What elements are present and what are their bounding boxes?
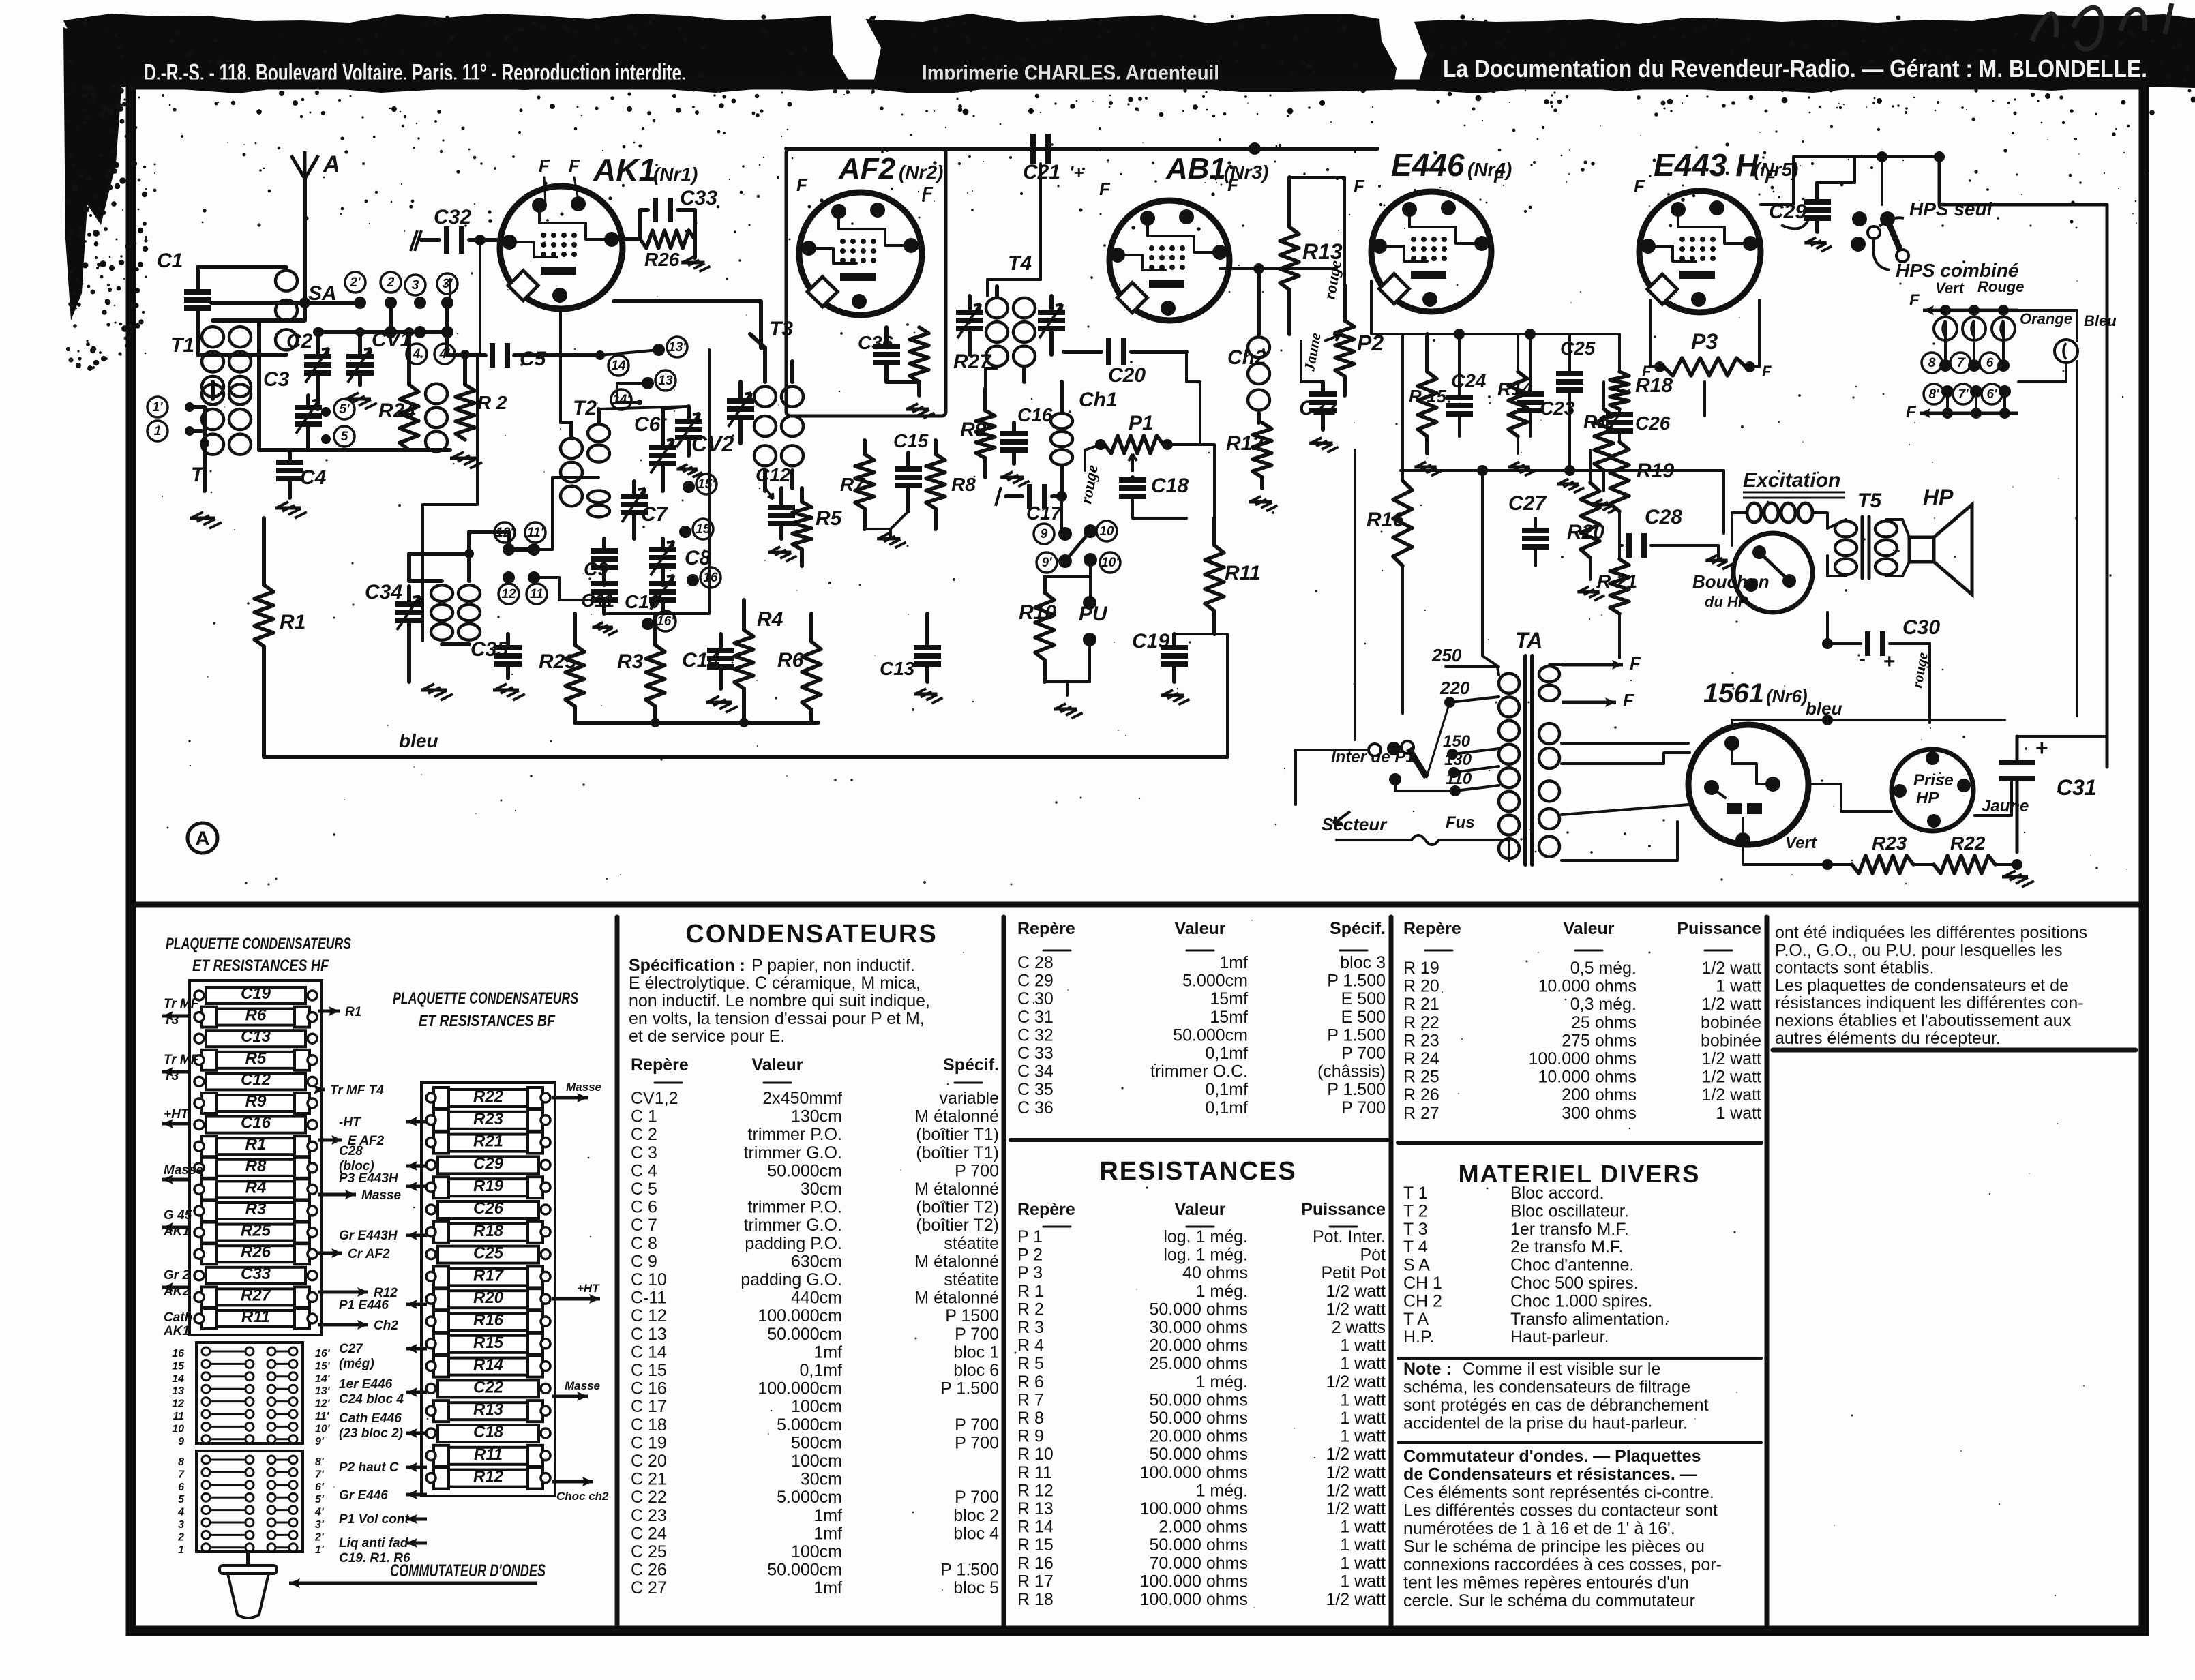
wire bottom rail mid [575,718,818,727]
svg-text:16': 16' [657,614,675,629]
label AB1 [1165,152,1268,185]
ground C12 [768,547,796,562]
svg-text:15mf: 15mf [1210,1008,1248,1027]
svg-text:R 10: R 10 [1017,1445,1054,1464]
capacitor CV1 [346,327,411,385]
svg-text:C1: C1 [157,250,183,272]
svg-text:50.000 ohms: 50.000 ohms [1149,1409,1248,1428]
svg-text:10': 10' [315,1423,331,1435]
svg-text:7: 7 [178,1469,185,1480]
svg-text:C 31: C 31 [1017,1008,1054,1027]
wire E443H top box [1761,151,1945,205]
wire bleu bottom [264,730,1227,757]
choke Ch1 [1051,382,1118,496]
label E443H [1654,147,1798,183]
transformer T1 [170,303,305,455]
svg-text:13: 13 [172,1385,184,1397]
node 2 [380,272,401,309]
wire C20 to AB1 [1186,352,1200,445]
svg-text:Valeur: Valeur [1174,919,1225,938]
ground R17 [1591,499,1618,513]
capacitor T4 left [956,296,983,355]
svg-text:C33: C33 [241,1265,271,1283]
resistor R8 [926,440,976,529]
svg-text:Sur le schéma de principe: Sur le schéma de principe les pièces ou [1403,1537,1705,1557]
capacitor CV2 [675,406,734,456]
resistor R20 [1567,450,1604,580]
svg-text:bloc 1: bloc 1 [953,1342,999,1362]
svg-text:bloc 5: bloc 5 [953,1578,999,1597]
svg-text:'+: '+ [1069,162,1084,183]
column rule 3 [1389,917,1394,1625]
node 6 [1980,352,2010,373]
ground C16 [1000,472,1029,487]
label Bleu lamp [2084,312,2117,329]
svg-text:T3: T3 [769,318,793,340]
svg-text:14': 14' [612,393,631,407]
resistor R6 [777,614,821,723]
svg-text:2.000 ohms: 2.000 ohms [1159,1518,1248,1537]
svg-text:F: F [1634,176,1645,196]
svg-text:R5: R5 [816,507,843,530]
wire C31 top [2017,736,2107,767]
svg-text:500cm: 500cm [791,1433,842,1452]
ground R7 [865,511,908,548]
potentiometer P1 [1085,412,1200,472]
svg-text:6': 6' [1986,387,1998,402]
capacitor C8 [649,539,711,585]
svg-text:C5: C5 [520,348,547,370]
capacitor C17 [996,484,1067,524]
node bus 2 [211,301,360,305]
svg-text:C 34: C 34 [1017,1062,1054,1081]
svg-text:5': 5' [339,402,350,417]
svg-text:C 25: C 25 [631,1542,667,1561]
label 250 [1431,645,1499,675]
svg-text:H.P.: H.P. [1403,1327,1434,1347]
svg-text:Repère: Repère [631,1055,689,1075]
tube AF2 [799,192,922,315]
resistor R15 [1409,334,1446,453]
node 9 [1034,524,1072,544]
svg-text:R11: R11 [241,1308,270,1326]
ground C31 [2002,871,2034,887]
svg-text:T1: T1 [170,334,194,357]
label F F AK1 [539,155,580,205]
svg-text:C6: C6 [634,413,661,436]
svg-text:1er transfo M.F.: 1er transfo M.F. [1510,1220,1629,1239]
svg-text:100cm: 100cm [791,1397,842,1416]
svg-text:C12: C12 [756,464,791,485]
label 1561 [1703,678,1808,708]
node 12prime [494,522,515,556]
wire secteur [1294,750,1297,805]
ground R12 [1249,496,1277,511]
svg-text:CV1,2: CV1,2 [631,1089,678,1108]
svg-text:C 18: C 18 [631,1415,667,1435]
node 3 [405,275,426,309]
svg-text:C 6: C 6 [631,1198,657,1217]
svg-text:50.000cm: 50.000cm [767,1561,842,1580]
svg-text:C 15: C 15 [631,1361,667,1380]
capacitor T4 right [1038,296,1065,355]
svg-text:(boîtier T1): (boîtier T1) [916,1125,999,1144]
label Vert wire [1743,834,1833,870]
svg-text:100.000 ohms: 100.000 ohms [1140,1499,1248,1518]
resistor R5 [792,488,843,566]
svg-text:C 9: C 9 [631,1252,657,1271]
svg-text:cercle. Sur le schéma du: cercle. Sur le schéma du commutateur [1403,1591,1695,1610]
svg-text:C29: C29 [473,1154,504,1173]
svg-text:Gr E443H: Gr E443H [339,1229,398,1243]
label F F E446 [1354,166,1505,196]
wire C32 drop [479,240,481,355]
wire bus blue to R11 [1214,634,1227,757]
svg-text:(Nr2): (Nr2) [899,162,943,183]
svg-text:P 700: P 700 [1341,1044,1386,1063]
svg-text:sont protégés en cas de dé: sont protégés en cas de débranchement [1403,1396,1709,1415]
socket Prise HP [1892,749,1973,831]
svg-text:R 26: R 26 [1403,1085,1439,1105]
svg-text:R 7: R 7 [1017,1390,1044,1409]
svg-text:A: A [323,151,340,177]
svg-text:Repère: Repère [1403,919,1461,938]
svg-text:1mf: 1mf [813,1342,842,1362]
svg-text:50.000cm: 50.000cm [1173,1025,1248,1045]
svg-text:1561: 1561 [1703,678,1764,708]
svg-text:P 2: P 2 [1017,1246,1043,1265]
svg-text:1/2 watt: 1/2 watt [1326,1445,1386,1464]
svg-text:1mf: 1mf [1219,953,1248,972]
ground R20 [1577,586,1604,600]
svg-text:Petit Pot: Petit Pot [1322,1263,1386,1282]
svg-text:2: 2 [177,1531,184,1543]
wire P2 net [1289,177,1345,382]
resistor R24 [378,327,447,451]
antenna A [291,151,340,225]
resistor R3 [617,614,665,723]
svg-text:1/2 watt: 1/2 watt [1326,1372,1386,1392]
ground C11 [592,622,618,635]
svg-text:C30: C30 [1902,616,1940,639]
svg-text:CONDENSATEURS: CONDENSATEURS [685,920,937,948]
tube E446 [1371,192,1491,312]
capacitor T3 tune [727,382,754,443]
svg-text:9': 9' [315,1436,325,1447]
svg-text:1 watt: 1 watt [1340,1390,1386,1409]
svg-text:Bouchon: Bouchon [1692,571,1770,592]
svg-text:1/2 watt: 1/2 watt [1701,1068,1761,1087]
capacitor C12 [756,464,795,539]
svg-text:1 watt: 1 watt [1340,1572,1386,1591]
label HPS seul [1879,198,1993,226]
svg-text:8: 8 [178,1456,184,1468]
svg-text:C 14: C 14 [631,1342,667,1362]
paragraph specification [629,956,930,1046]
svg-text:9: 9 [178,1436,184,1447]
svg-text:C26: C26 [473,1199,504,1218]
svg-text:50.000 ohms: 50.000 ohms [1149,1445,1248,1464]
svg-text:-HT: -HT [339,1115,361,1130]
svg-text:E 500: E 500 [1341,989,1386,1008]
svg-text:1/2 watt: 1/2 watt [1326,1282,1386,1301]
svg-text:1 watt: 1 watt [1716,977,1761,996]
svg-text:P1 E446: P1 E446 [339,1298,389,1312]
node 5 [321,426,355,447]
divider schematic/tables [136,902,2138,908]
svg-text:autres éléments du récepteu: autres éléments du récepteur. [1775,1029,2001,1048]
svg-text:C 12: C 12 [631,1306,667,1325]
svg-text:F: F [1354,176,1365,196]
svg-text:C8: C8 [685,547,711,569]
svg-text:2x450mmf: 2x450mmf [762,1089,842,1108]
svg-text:C24: C24 [1451,370,1487,391]
svg-text:R 4: R 4 [1017,1336,1044,1355]
choke SA [198,267,337,355]
svg-text:Liq anti fad: Liq anti fad [339,1536,408,1550]
svg-text:16: 16 [703,571,718,585]
svg-text:9': 9' [1041,556,1053,570]
svg-text:C27: C27 [339,1342,363,1356]
svg-text:R 15: R 15 [1017,1535,1054,1555]
wire 2-2p link [389,303,393,332]
svg-text:Valeur: Valeur [751,1055,803,1075]
svg-text:Spécification :: Spécification : [629,956,745,975]
svg-text:6': 6' [315,1482,325,1493]
capacitor C3 [263,368,322,450]
svg-text:S A: S A [1403,1256,1430,1275]
capacitor C6 [634,409,676,491]
svg-text:C3: C3 [263,368,290,391]
svg-text:(boîtier T2): (boîtier T2) [916,1198,999,1217]
wire 1561 left leads [1562,743,1690,860]
svg-text:Fus: Fus [1446,813,1475,832]
column rule 4 [1765,917,1770,1625]
label 150 [1443,732,1499,760]
capacitor C4 [276,450,327,498]
speaker HP [1902,485,1972,595]
svg-text:100.000cm: 100.000cm [758,1306,842,1325]
svg-text:C19: C19 [241,985,271,1003]
label Orange [2020,310,2072,327]
table C header [1403,919,1761,950]
svg-text:11: 11 [530,587,543,601]
svg-text:C 19: C 19 [631,1433,667,1452]
svg-text:100cm: 100cm [791,1452,842,1471]
svg-text:P 1500: P 1500 [945,1306,999,1325]
svg-text:Pot: Pot [1360,1246,1386,1265]
ground CV2 [676,464,702,477]
ground C35 [493,684,525,700]
svg-text:Pot. Inter.: Pot. Inter. [1313,1227,1386,1246]
wire can right rail [604,350,709,614]
svg-text:9: 9 [1041,527,1048,541]
svg-text:T 3: T 3 [1403,1220,1428,1239]
masthead black band [63,14,2195,320]
svg-text:70.000 ohms: 70.000 ohms [1149,1554,1248,1573]
svg-text:6: 6 [178,1482,184,1493]
svg-text:1mf: 1mf [813,1578,842,1597]
lamp 1 [1934,317,1957,340]
svg-text:ET RESISTANCES BF: ET RESISTANCES BF [419,1012,556,1030]
label commutateur dondes [289,1561,546,1588]
svg-text:C 33: C 33 [1017,1044,1054,1063]
svg-text:Cr AF2: Cr AF2 [348,1247,390,1261]
svg-text:Comme il est visible sur: Comme il est visible sur le [1463,1360,1660,1379]
svg-text:T 4: T 4 [1403,1237,1428,1257]
svg-text:R19: R19 [473,1177,504,1195]
svg-text:COMMUTATEUR D'ONDES: COMMUTATEUR D'ONDES [390,1561,546,1580]
commutator lower contacts [177,1456,325,1556]
ground C29 [1804,237,1832,251]
label AF2 [838,152,943,185]
ground R14 [1508,462,1535,475]
node 14prime [611,389,642,410]
svg-text:Choc 1.000 spires.: Choc 1.000 spires. [1510,1291,1652,1310]
ground osc [421,684,453,700]
plaquette HF left leads [162,997,204,1338]
svg-text:Choc ch2: Choc ch2 [556,1490,609,1503]
svg-text:C28: C28 [1645,506,1682,528]
svg-text:0,1mf: 0,1mf [1205,1080,1248,1099]
svg-text:630cm: 630cm [791,1252,842,1271]
svg-text:1er E446: 1er E446 [339,1377,393,1392]
svg-text:1 még.: 1 még. [1196,1481,1248,1500]
wire 1561 to prise [1808,784,1892,811]
svg-text:stéatite: stéatite [944,1270,999,1289]
column rule 2 [1002,917,1006,1625]
svg-text:T 2: T 2 [1403,1201,1428,1220]
node 1 [147,421,194,441]
svg-text:contacts sont établis.: contacts sont établis. [1775,959,1934,978]
svg-text:0,1mf: 0,1mf [1205,1044,1248,1063]
table B2 rows [1017,1227,1386,1609]
svg-text:variable: variable [939,1089,999,1108]
svg-text:(boîtier T2): (boîtier T2) [916,1216,999,1235]
wire AK1 bias [449,280,451,303]
svg-text:R 13: R 13 [1017,1499,1054,1518]
svg-text:12': 12' [315,1398,331,1410]
svg-text:numérotées de 1 à 16 et: numérotées de 1 à 16 et de 1' à 16'. [1403,1519,1675,1538]
svg-text:Choc 500 spires.: Choc 500 spires. [1510,1274,1639,1293]
svg-text:10: 10 [1099,524,1114,539]
svg-text:Haut-parleur.: Haut-parleur. [1510,1327,1609,1347]
node 1prime [147,397,194,417]
svg-text:15: 15 [172,1360,185,1372]
svg-text:1 még.: 1 még. [1196,1282,1248,1301]
svg-text:CH 1: CH 1 [1403,1274,1442,1293]
svg-text:275 ohms: 275 ohms [1562,1031,1637,1050]
svg-text:C20: C20 [1108,364,1146,387]
svg-text:10.000 ohms: 10.000 ohms [1538,1068,1637,1087]
svg-text:PLAQUETTE CONDENSATEURS: PLAQUETTE CONDENSATEURS [166,935,351,953]
node 7prime [1953,384,1982,404]
fuse Fus [1337,813,1509,860]
svg-text:12: 12 [501,587,516,601]
label 110 [1446,770,1499,796]
table A rows [631,1089,999,1597]
label F F E443H [1634,166,1776,196]
svg-text:R 20: R 20 [1403,977,1439,996]
node 11prime [525,522,546,556]
node 13 [642,370,676,391]
svg-text:50.000cm: 50.000cm [767,1161,842,1180]
svg-text:Valeur: Valeur [1174,1200,1225,1219]
svg-text:C13: C13 [241,1027,271,1046]
svg-text:C34: C34 [365,581,402,603]
resistor R21 [1597,545,1637,658]
svg-text:R 18: R 18 [1017,1590,1054,1609]
svg-text:R11: R11 [474,1445,503,1464]
rule under note [1398,1441,1761,1444]
table B rows [1017,953,1386,1117]
svg-text:Gr E446: Gr E446 [339,1488,388,1503]
svg-text:AB1: AB1 [1165,152,1226,185]
svg-text:R21: R21 [473,1132,503,1151]
svg-text:trimmer G.O.: trimmer G.O. [744,1216,842,1235]
svg-text:T4: T4 [1008,252,1032,275]
node 9prime [1036,552,1072,573]
svg-text:100.000 ohms: 100.000 ohms [1140,1590,1248,1609]
label E446 [1391,147,1512,183]
node 12 [498,571,519,604]
svg-text:bobinée: bobinée [1701,1013,1761,1032]
rule column E [1773,1048,2136,1053]
rule under R27 [1398,1141,1761,1145]
ground R2 [450,452,482,468]
label Jaune P2 [1300,331,1324,373]
label F F AF2 [796,175,934,203]
svg-text:ont été indiquées les diff: ont été indiquées les différentes positi… [1775,923,2087,942]
capacitor C2 [286,327,331,409]
svg-text:C 23: C 23 [631,1506,667,1525]
svg-text:stéatite: stéatite [944,1234,999,1253]
svg-text:P 1.500: P 1.500 [1327,1080,1386,1099]
svg-text:8: 8 [1928,356,1936,370]
svg-text:110: 110 [1446,770,1472,788]
svg-text:R18: R18 [473,1222,504,1240]
svg-text:Ch2: Ch2 [374,1319,398,1333]
node 2prime [345,272,366,309]
svg-text:10: 10 [172,1423,184,1435]
ground R10 [1054,704,1082,719]
svg-text:accidentel de la prise du: accidentel de la prise du haut-parleur. [1403,1414,1688,1433]
svg-text:C 24: C 24 [631,1524,667,1543]
svg-text:C16: C16 [241,1114,271,1132]
svg-text:Les différentes cosses du c: Les différentes cosses du contacteur son… [1403,1501,1718,1520]
svg-text:15': 15' [315,1360,331,1372]
svg-text:F: F [1099,179,1111,199]
svg-text:R 2: R 2 [477,392,507,413]
resistor R11 [1205,518,1261,634]
node 16prime [642,611,676,631]
svg-text:13: 13 [658,374,673,388]
svg-text:C 22: C 22 [631,1488,667,1507]
svg-text:1 watt: 1 watt [1340,1518,1386,1537]
capacitor C9 [584,539,618,585]
svg-text:R13: R13 [473,1400,504,1419]
svg-text:F: F [1227,175,1239,195]
svg-text:C26: C26 [1635,412,1671,434]
svg-text:R4: R4 [245,1178,267,1197]
svg-text:C2: C2 [286,330,313,352]
shield box AF2 [786,149,946,416]
svg-text:1 watt: 1 watt [1340,1535,1386,1555]
masthead text right [1443,55,2147,82]
svg-text:Rouge: Rouge [1977,278,2024,295]
wire 3p drop [447,303,477,355]
trimmer C34 [365,581,423,682]
